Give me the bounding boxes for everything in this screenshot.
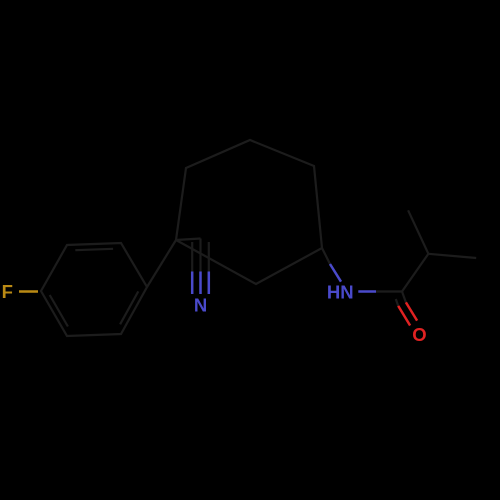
svg-text:O: O xyxy=(412,324,426,345)
svg-text:N: N xyxy=(194,295,207,316)
svg-text:HN: HN xyxy=(327,281,354,302)
svg-text:F: F xyxy=(2,281,13,302)
